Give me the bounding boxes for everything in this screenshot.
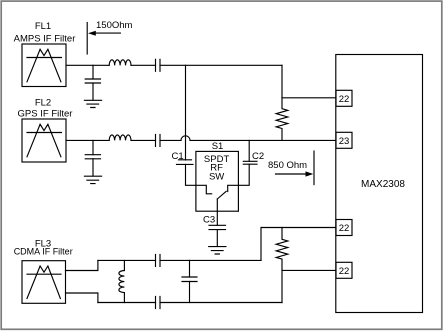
annotation 850Ohm bar [313,151,315,185]
wire capacitor to corner, node at x=185.5 [160,64,282,66]
svg-text:CDMA IF Filter: CDMA IF Filter [14,246,73,256]
svg-text:C1: C1 [172,151,184,162]
pin box 23 (pin2) [336,132,352,148]
filter FL1 box [22,44,66,87]
capacitor C1 plates [177,160,194,165]
pin box 22 (pin1) [336,90,352,106]
filter FL1 icon [27,49,62,82]
annotation 150Ohm bar [86,23,88,55]
op-amp-ish IC U1 MAX2308 [336,55,423,313]
svg-text:S1: S1 [212,141,224,152]
pin box 22 (pin4) [336,262,352,278]
capacitor shunt AMPS - lead [92,65,94,79]
wire CDMA bottom rail right [160,302,282,304]
capacitor series CDMA top (plates) [156,254,161,266]
capacitor shunt CDMA plates [182,277,197,282]
svg-text:C3: C3 [203,214,215,225]
filter FL3 icon [27,266,61,299]
capacitor C3 plates [209,225,226,229]
wire hop over C1 line [181,136,190,141]
svg-text:C2: C2 [252,151,264,162]
capacitor shunt GPS lower lead [92,159,94,176]
switch S1 left contact [196,185,212,194]
filter FL3 box [22,261,66,304]
annotation 850Ohm arrowhead [306,171,314,176]
capacitor shunt AMPS plates [85,79,100,83]
capacitor shunt GPS plates [85,155,100,159]
capacitor shunt CDMA lead [189,260,191,277]
wire FL3 bottom output [66,293,98,303]
wire FL3 top output [66,260,98,270]
wire FL2 output to inductor [66,139,109,141]
wire C2 to switch box [238,164,249,185]
wire to pin 22 [282,97,336,99]
resistor R2 850ohm vertical [276,228,288,303]
capacitor shunt AMPS lower lead [92,83,94,100]
filter FL2 icon [27,124,62,157]
filter FL2 box [22,119,66,162]
inductor L2 [109,135,131,140]
capacitor series CDMA bottom (plates) [156,297,161,309]
ground C3 [209,247,226,254]
switch S1 pole wire to C3 [216,199,218,225]
wire capacitor to hop [160,139,181,141]
capacitor shunt GPS lead [92,140,94,154]
svg-text:22: 22 [339,266,350,277]
svg-text:GPS IF Filter: GPS IF Filter [18,109,73,120]
wire FL1 output to inductor [66,64,109,66]
switch S1 right contact [228,185,239,191]
capacitor C2 plates [243,161,257,164]
svg-text:22: 22 [339,223,350,234]
wire to pin 22 bottom [282,269,336,271]
wire down to pin 22 junction [281,65,283,98]
wire node AMPS to C1 (crosses GPS wire under hop) [185,65,187,160]
svg-text:22: 22 [339,94,350,105]
wire inductor L1 to capacitor [131,64,156,66]
wire CDMA bottom rail left [98,302,156,304]
switch S1 box [196,151,239,211]
svg-text:FL1: FL1 [35,21,51,32]
wire CDMA top rail right [160,259,261,261]
capacitor series AMPS (plates) [156,59,161,71]
inductor L1 [109,60,131,65]
capacitor series GPS (plates) [156,134,161,146]
wire inductor L2 to capacitor [131,139,156,141]
svg-text:SW: SW [209,171,224,182]
pin box 22 (pin3) [336,220,352,236]
svg-text:150Ohm: 150Ohm [96,20,133,31]
svg-text:FL2: FL2 [35,98,51,109]
wire CDMA top rail left [98,259,156,261]
annotation 150Ohm arrow line [95,32,120,34]
wire pin23 node to C2 [248,140,250,161]
wire C3 to ground [216,230,218,247]
annotation 850Ohm arrow line [276,173,307,175]
ground GPS [84,176,101,183]
capacitor shunt CDMA lower lead [189,282,191,303]
ground AMPS [84,100,101,107]
switch S1 lever [217,191,226,199]
resistor R1 150ohm vertical [276,98,288,141]
svg-text:MAX2308: MAX2308 [361,179,405,190]
annotation 150Ohm arrowhead [88,31,96,36]
inductor L3 vertical [119,260,124,302]
wire C1 to switch box [186,165,196,186]
svg-text:23: 23 [339,136,350,147]
svg-text:AMPS IF Filter: AMPS IF Filter [14,34,76,45]
wire hop to pin 23, nodes at C2 and R1 [190,139,336,141]
wire CDMA top rail corner to pin 22 [261,228,336,261]
svg-text:850 Ohm: 850 Ohm [268,160,307,171]
